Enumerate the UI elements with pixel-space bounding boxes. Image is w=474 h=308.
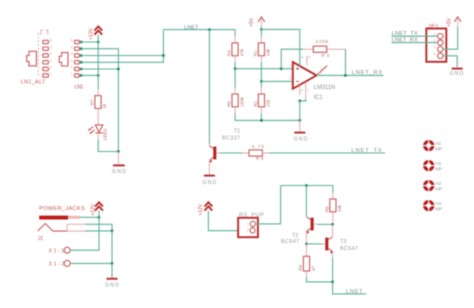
junction bottom rail [331,281,334,284]
svg-text:22k: 22k [266,99,271,107]
resistor R7 1k [89,96,107,109]
power jack J1 [38,216,86,242]
wire pin1 to +12V [81,74,98,76]
junction pin3 [80,61,83,64]
mounting hole H4 [422,199,442,212]
svg-text:+5V: +5V [249,17,255,27]
svg-text:LN1: LN1 [74,85,83,91]
svg-text:+5V: +5V [447,17,453,27]
svg-text:J1: J1 [38,236,44,242]
junction pin2 [80,68,83,71]
mounting hole H1 [422,139,442,152]
svg-text:2: 2 [247,229,249,233]
wire LNET down to R4 [234,30,236,37]
ground G3 [294,120,308,142]
svg-text:T1: T1 [234,128,240,134]
wire +5V to op-amp pin8 [261,29,299,58]
resistor R4 47k [227,43,245,56]
wire R9 to bottom rail [307,277,333,282]
svg-text:3: 3 [71,59,73,63]
junction LNET T1 [208,28,211,31]
svg-text:150k: 150k [239,96,244,107]
junction pin1 [80,74,83,77]
junction jack sleeve [111,230,114,233]
junction pin4 [80,54,83,57]
lead R9 bottom [306,271,308,277]
junction +5V [260,28,263,31]
svg-text:3: 3 [289,77,291,81]
wire T1 base to R6 [220,152,243,154]
wire R5 bottom row to gnd [234,107,236,114]
svg-text:5: 5 [50,45,52,49]
resistor R3 220k [303,39,346,58]
wire LNET top [163,29,235,31]
svg-text:MP: MP [435,206,442,212]
junction rail T2 [305,184,308,187]
wire R4 bottom row [234,56,236,63]
svg-text:4.7k: 4.7k [252,144,265,149]
svg-text:LNET_TX: LNET_TX [351,148,382,154]
svg-text:4: 4 [433,52,435,56]
ground G4 [450,67,464,77]
transistor T3 BC547 [322,237,358,254]
connector LN1 [59,39,83,91]
supply +12V at jack [91,202,103,216]
svg-text:H4: H4 [435,201,441,207]
svg-text:+12V: +12V [88,28,94,40]
wire X1-1 [70,217,99,250]
lead T3 emitter [332,252,334,258]
svg-text:2: 2 [71,66,73,70]
svg-text:H2: H2 [435,161,441,167]
wire rail to R8 [332,186,334,193]
svg-text:R9: R9 [298,264,303,270]
resistor R8 10k [324,193,342,225]
wire R6 to LNET_TX [262,152,269,154]
junction pin6 [80,41,83,44]
supply +12V at RS_PUP [198,202,212,216]
wire jack sleeve [86,230,113,232]
supply +5V left [249,17,265,27]
svg-text:1: 1 [50,72,52,76]
lead T2 emitter [305,232,307,244]
svg-text:4: 4 [301,89,303,93]
junction pin5 [80,47,83,50]
junction output [344,74,347,77]
junction R2 gnd row [260,119,263,122]
svg-text:GND: GND [112,169,126,175]
transistor T2 BC547 [281,217,317,245]
wire LED1 to gnd junction [97,134,99,141]
wire RS_PUP pin1 to rail [256,186,281,224]
svg-text:1: 1 [71,72,73,76]
mounting hole H2 [422,159,442,172]
junction opamp gnd row [298,119,301,122]
resistor R2 22k [253,94,271,107]
pad X1-1 [49,247,71,254]
svg-text:GND: GND [450,71,464,77]
svg-text:220k: 220k [316,39,329,44]
junction X1-2 gnd [111,262,114,265]
svg-text:3: 3 [433,45,435,49]
wire X1-2 [70,262,112,264]
wire top rail [281,185,333,187]
svg-text:LNET_TX: LNET_TX [392,31,418,37]
svg-text:MP: MP [435,186,442,192]
lead R9 top [306,244,308,256]
LED LED1 [88,125,108,140]
wire down to X1-2 [111,231,113,264]
wire pin2 [81,68,118,70]
wire +12V to RS_PUP [208,211,238,231]
junction row4 LNET riser [162,54,165,57]
svg-text:GND: GND [294,137,308,143]
svg-text:2: 2 [50,66,52,70]
svg-text:1: 1 [247,222,249,226]
wire R1 bottom to minus input row [260,56,262,63]
wire bottom to LNET [333,282,366,294]
svg-text:R8: R8 [324,206,329,212]
svg-text:47: 47 [311,265,316,271]
mounting hole H3 [422,179,442,192]
wire +5V stem [260,27,262,30]
junction at +12V row1 [97,74,100,77]
wire rail to T2 collector [305,186,307,217]
wire down to R2 [260,81,262,87]
supply +5V at JP1 [447,17,462,27]
svg-text:+12V: +12V [198,203,204,215]
resistor R5 150k [227,94,245,107]
supply +12V top [88,26,102,40]
wire T3 emitter down [332,258,334,282]
svg-text:H1: H1 [435,141,441,147]
svg-text:10k: 10k [266,48,271,56]
svg-text:LNET: LNET [184,25,199,31]
svg-text:LED1: LED1 [103,128,109,140]
wire +5V down to R1 [260,29,262,36]
svg-text:LNET_RX: LNET_RX [392,38,418,44]
svg-text:R5: R5 [227,101,232,107]
svg-text:GND: GND [105,283,119,289]
ground G5 [105,279,119,289]
junction pin2 vertical [117,68,120,71]
svg-text:R1: R1 [253,50,258,56]
wire JP1 pin2 [392,42,438,44]
svg-text:BC547: BC547 [340,246,358,252]
svg-text:GND: GND [203,180,217,186]
wire JP1 pin4 to gnd [443,56,457,67]
svg-text:1: 1 [307,89,309,93]
junction X1-1 +12V [98,216,101,219]
svg-text:POWER_JACKS: POWER_JACKS [39,206,85,212]
svg-text:LM311N: LM311N [314,85,335,91]
svg-text:LNET_RX: LNET_RX [352,70,383,76]
op-amp IC1 LM311N [289,55,335,101]
svg-text:BC547: BC547 [281,239,299,245]
svg-text:5: 5 [308,56,310,60]
junction at +12V row6 [97,41,100,44]
wire JP1 pin3 to +5V [443,27,458,49]
junction R4 bottom [234,67,237,70]
resistor R9 47 [298,256,316,271]
wire jack top to junction [80,216,99,218]
svg-text:47k: 47k [239,48,244,56]
svg-text:1k: 1k [102,103,107,109]
junction T2 emitter [305,243,308,246]
wire pin4 [81,55,163,57]
svg-text:8: 8 [301,56,303,60]
pad X1-2 [49,260,71,267]
lead T1 collector [208,144,210,146]
svg-text:6: 6 [321,67,323,71]
ground G2 [203,176,217,186]
wire to op-amp minus input [261,80,292,82]
junction minus row [260,80,263,83]
lead T3 collector [332,224,334,236]
wire R5 top [234,69,236,88]
wire op-amp output [317,74,384,76]
svg-text:+12V: +12V [91,203,97,215]
wire pin3 [81,30,163,63]
svg-text:BC337: BC337 [222,136,240,142]
svg-text:LN1_ALT: LN1_ALT [21,80,46,86]
wire R2 bottom [260,107,262,114]
junction LED gnd [117,150,120,153]
connector RS_PUP [238,213,264,238]
junction T2 base R8 T3 [331,223,334,226]
resistor R1 10k [253,43,271,56]
junction R3 tap [280,67,283,70]
wire pin6 to +12V [81,41,98,43]
wire LNET to T1 collector [208,30,210,144]
ground G1 [112,152,126,176]
svg-text:R2: R2 [253,101,258,107]
lead R7 to LED1 [97,108,99,125]
wire tap up to R3 [281,49,303,68]
svg-text:4: 4 [71,52,73,56]
svg-text:MP: MP [435,166,442,172]
wire +12V vertical to R7 [97,35,99,89]
svg-text:MP: MP [435,146,442,152]
svg-text:T3: T3 [340,239,346,245]
wire +12V stem at jack [98,211,100,218]
svg-text:R4: R4 [227,50,232,56]
svg-text:5: 5 [71,45,73,49]
svg-text:6: 6 [71,39,73,43]
svg-text:4: 4 [50,52,52,56]
connector LN1_ALT [21,30,52,86]
junction opamp power pins [298,100,301,103]
svg-text:R7: R7 [89,99,94,105]
connector JP1 [426,24,446,62]
wire jack switch contact [86,224,113,231]
svg-text:LNET: LNET [346,289,363,295]
transistor T1 BC337 [209,128,240,162]
wire T3 base to T2 emitter junction [307,243,322,245]
wire R3 right down to output [345,49,347,75]
wire to G5 [111,263,113,278]
wire JP1 pin1 [392,35,438,37]
svg-text:3: 3 [50,59,52,63]
wire row to op-amp plus input [235,68,293,70]
svg-text:IC1: IC1 [314,95,324,101]
svg-text:H3: H3 [435,181,441,187]
lead T1 emitter to gnd [208,161,210,175]
svg-text:2: 2 [289,64,291,68]
svg-text:10k: 10k [337,204,342,212]
resistor R6 4.7k [249,144,265,161]
wire opamp gnd [299,101,301,121]
wire T2 base to junction [317,223,332,225]
svg-text:6: 6 [50,39,52,43]
wire pin5 down [81,49,118,152]
